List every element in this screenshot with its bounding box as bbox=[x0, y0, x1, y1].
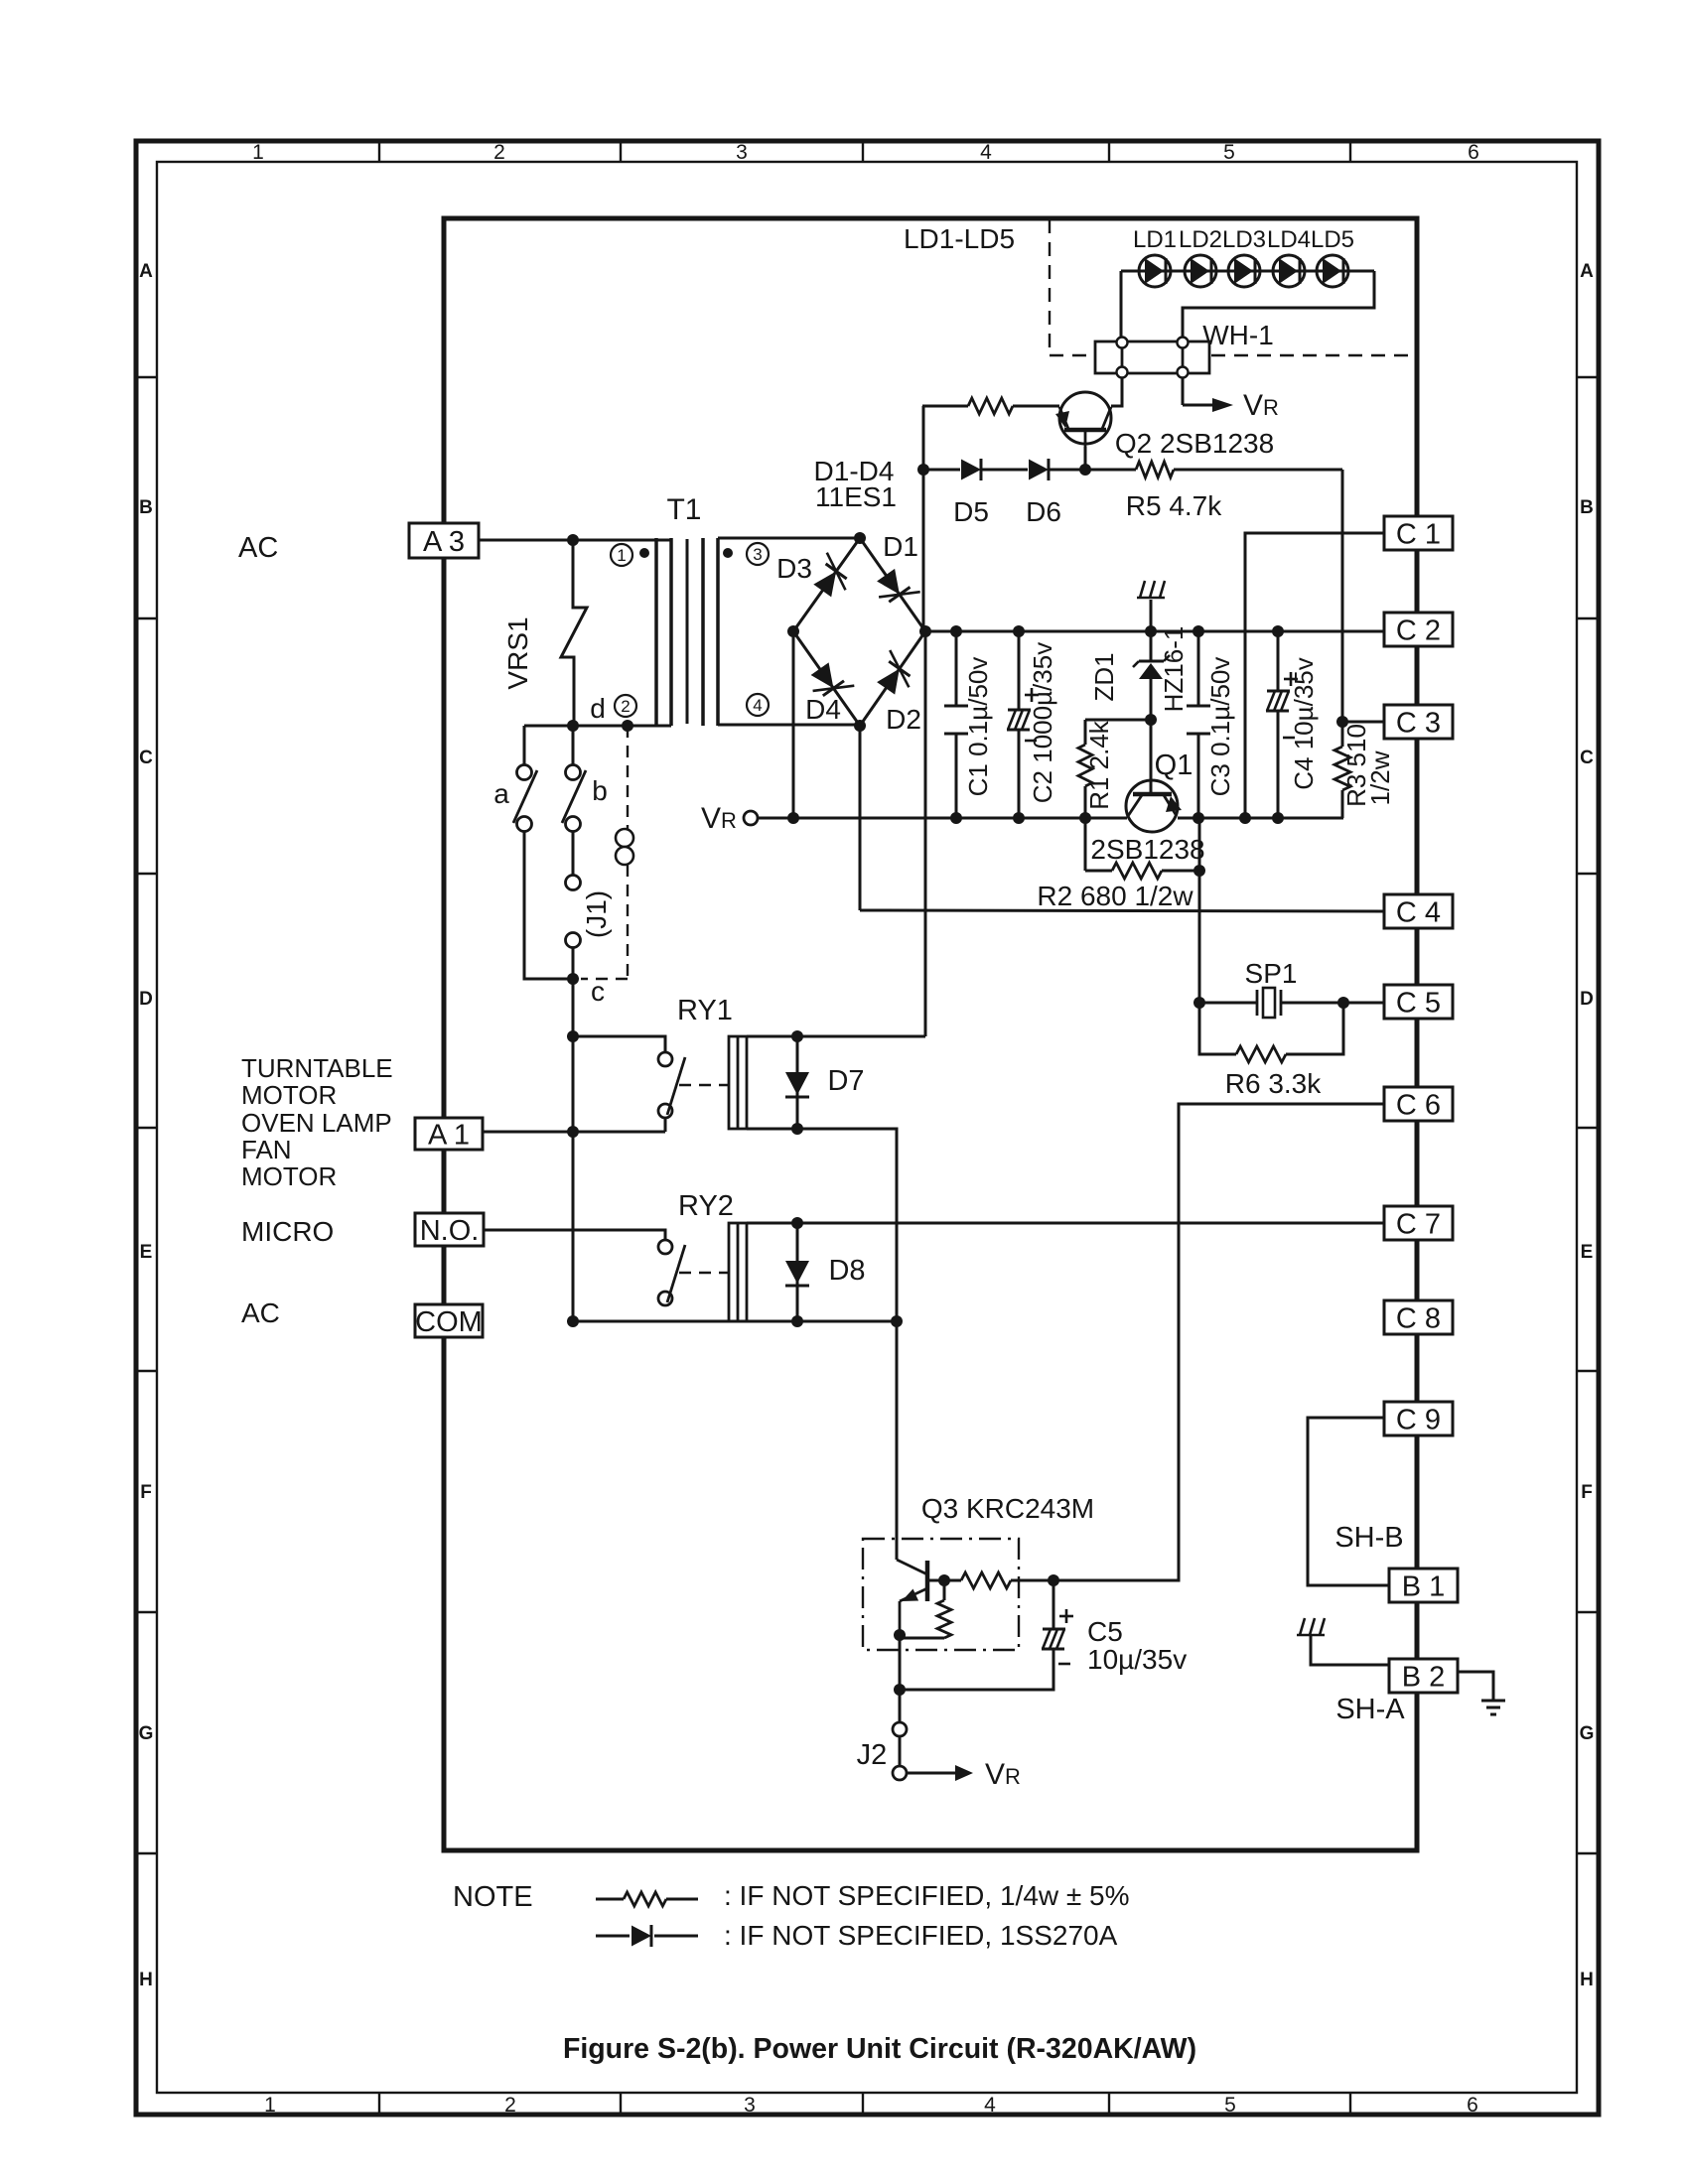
svg-text:AC: AC bbox=[241, 1297, 280, 1328]
connector C6 bbox=[1384, 1087, 1453, 1121]
node R2 right bbox=[1193, 865, 1205, 877]
svg-text:F: F bbox=[140, 1482, 152, 1503]
wire ZD1 to Q1 base bbox=[1150, 720, 1153, 794]
node Q3 emitter bottom bbox=[894, 1684, 906, 1696]
label D6 bbox=[1026, 496, 1061, 527]
svg-text:C 7: C 7 bbox=[1396, 1208, 1441, 1240]
switch a bbox=[513, 765, 537, 832]
label C3 0.1u/50v bbox=[1205, 657, 1235, 797]
node RY1 feed bbox=[567, 1030, 579, 1042]
svg-text:B: B bbox=[139, 497, 153, 518]
node VR-bridge minus bbox=[787, 812, 799, 824]
svg-text:11ES1: 11ES1 bbox=[815, 481, 897, 512]
node COM junction bbox=[567, 1315, 579, 1327]
connector C4 bbox=[1384, 894, 1453, 928]
capacitor C1 0.1u/50v bbox=[944, 631, 968, 818]
node D7 bottom bbox=[791, 1123, 803, 1135]
bridge edge T-R bbox=[860, 538, 925, 631]
svg-text:4: 4 bbox=[980, 141, 992, 164]
bridge edge B-R bbox=[860, 631, 925, 726]
figure title bbox=[563, 2033, 1196, 2065]
svg-text:Figure S-2(b). Power Unit Circ: Figure S-2(b). Power Unit Circuit (R-320… bbox=[563, 2033, 1196, 2065]
resistor R6 3.3k bbox=[1199, 1003, 1343, 1062]
dashed RY1 linkage bbox=[679, 1084, 729, 1086]
wire Q3 out to C6 bbox=[1053, 1104, 1384, 1580]
svg-text:RY2: RY2 bbox=[678, 1190, 734, 1222]
capacitor C2 1000u/35v bbox=[1007, 631, 1031, 818]
svg-text:C2 1000µ/35v: C2 1000µ/35v bbox=[1028, 642, 1057, 803]
label C2 1000u/35v bbox=[1028, 642, 1057, 803]
node C1 bottom bbox=[950, 812, 962, 824]
resistor Q3 base bbox=[961, 1572, 1011, 1588]
svg-text:MOTOR: MOTOR bbox=[241, 1161, 337, 1191]
svg-text:FAN: FAN bbox=[241, 1135, 292, 1164]
legend text 1 bbox=[724, 1880, 1130, 1911]
label Q1 bbox=[1155, 750, 1193, 781]
node bridge left bbox=[787, 625, 799, 637]
svg-text:D2: D2 bbox=[886, 704, 921, 735]
wire relay common down to Q3 bbox=[896, 1321, 899, 1560]
C2 polarity marks bbox=[1025, 688, 1039, 741]
label J2 bbox=[857, 1739, 888, 1771]
svg-text:VRS1: VRS1 bbox=[502, 616, 533, 689]
svg-text:D8: D8 bbox=[828, 1255, 865, 1287]
connector C9 bbox=[1384, 1402, 1453, 1435]
label WH-1 bbox=[1202, 320, 1274, 350]
relay RY2 coil bbox=[729, 1223, 747, 1321]
wire WH-1 to VR arrow bbox=[1183, 377, 1233, 412]
svg-text:C3 0.1µ/50v: C3 0.1µ/50v bbox=[1205, 657, 1235, 797]
svg-text:: IF NOT SPECIFIED, 1/4w ± 5%: : IF NOT SPECIFIED, 1/4w ± 5% bbox=[724, 1880, 1130, 1911]
svg-text:2: 2 bbox=[504, 2094, 516, 2116]
svg-text:a: a bbox=[493, 778, 509, 809]
wire Q3 base resistor leads bbox=[944, 1579, 1053, 1582]
svg-text:(J1): (J1) bbox=[581, 890, 612, 938]
label TURNTABLE MOTOR OVEN LAMP FAN MOTOR bbox=[241, 1053, 393, 1191]
wire R4 to Q2 bbox=[1013, 405, 1059, 408]
wire left common column bbox=[572, 1036, 575, 1321]
varistor VRS1 bbox=[561, 540, 587, 726]
svg-text:D6: D6 bbox=[1026, 496, 1061, 527]
diode D3 bbox=[813, 553, 846, 598]
svg-text:R2 680 1/2w: R2 680 1/2w bbox=[1037, 881, 1193, 911]
node bridge top bbox=[854, 532, 866, 544]
wire VR rail right bbox=[1178, 817, 1343, 820]
svg-text:2: 2 bbox=[493, 141, 505, 164]
svg-text:H: H bbox=[1580, 1970, 1594, 1990]
wire C4 conn line bbox=[860, 910, 1384, 911]
svg-text:C1 0.1µ/50v: C1 0.1µ/50v bbox=[963, 657, 993, 797]
node R1 bottom bbox=[1079, 812, 1091, 824]
svg-text:6: 6 bbox=[1468, 141, 1479, 164]
connector C2 bbox=[1384, 613, 1453, 646]
svg-text:10µ/35v: 10µ/35v bbox=[1087, 1644, 1187, 1675]
svg-text:D: D bbox=[139, 989, 153, 1010]
label D5 bbox=[953, 496, 989, 527]
svg-text:RY1: RY1 bbox=[677, 995, 733, 1026]
dashed J1 linkage bbox=[581, 726, 628, 979]
label a bbox=[493, 778, 509, 809]
label d bbox=[590, 693, 606, 724]
label D8 bbox=[828, 1255, 865, 1287]
svg-text:LD4: LD4 bbox=[1267, 226, 1311, 253]
svg-text:A: A bbox=[139, 261, 153, 282]
LED LD5 bbox=[1317, 255, 1348, 287]
label C5 bbox=[1087, 1616, 1187, 1675]
svg-text:: IF NOT SPECIFIED, 1SS270A: : IF NOT SPECIFIED, 1SS270A bbox=[724, 1920, 1118, 1951]
transistor Q3 KRC243M bbox=[897, 1560, 927, 1635]
label R3 510 bbox=[1341, 724, 1371, 807]
label 11ES1 bbox=[815, 481, 897, 512]
node D7 top bbox=[791, 1030, 803, 1042]
svg-text:b: b bbox=[592, 775, 608, 806]
capacitor C5 10u/35v bbox=[1042, 1580, 1065, 1690]
node D8 bottom bbox=[791, 1315, 803, 1327]
svg-text:LD1: LD1 bbox=[1133, 226, 1177, 253]
connector C1 bbox=[1384, 516, 1453, 550]
svg-text:3: 3 bbox=[744, 2094, 756, 2116]
svg-text:LD1-LD5: LD1-LD5 bbox=[904, 223, 1015, 254]
svg-text:3: 3 bbox=[736, 141, 748, 164]
dashed display-board boundary bbox=[1050, 219, 1414, 355]
pin 4 marker bbox=[747, 694, 769, 716]
LED LD4 bbox=[1273, 255, 1305, 287]
label c bbox=[591, 976, 605, 1007]
wire switch a bottom bbox=[524, 831, 573, 979]
node R5-C3 junction bbox=[1336, 716, 1348, 728]
label RY1 bbox=[677, 995, 733, 1026]
label AC (top) bbox=[238, 532, 278, 564]
label NOTE bbox=[453, 1881, 533, 1913]
wire switch b to J1 bbox=[572, 831, 575, 876]
capacitor C3 0.1u/50v bbox=[1187, 631, 1210, 818]
arrow J2 VR bbox=[907, 1765, 973, 1781]
label 1/2w (R3) bbox=[1365, 751, 1395, 805]
diode D2 bbox=[877, 650, 910, 695]
connector C3 bbox=[1384, 705, 1453, 739]
svg-text:A 1: A 1 bbox=[428, 1119, 470, 1151]
wire Q3 emitter down bbox=[899, 1635, 902, 1690]
label Q2 2SB1238 bbox=[1115, 428, 1274, 459]
wire VR rail left bbox=[758, 817, 1127, 820]
node A1 junction bbox=[567, 1126, 579, 1138]
connector B2 bbox=[1389, 1659, 1458, 1693]
wire bridge minus down bbox=[792, 631, 795, 818]
wire bridge plus down to relays bbox=[924, 631, 927, 1036]
dashed RY2 linkage bbox=[679, 1272, 729, 1274]
wire d to primary bottom bbox=[524, 725, 671, 728]
svg-text:OVEN LAMP: OVEN LAMP bbox=[241, 1108, 392, 1138]
ground (SH-A) bbox=[1297, 1618, 1389, 1665]
node C3 bottom bbox=[1193, 812, 1204, 824]
label SH-B bbox=[1334, 1522, 1403, 1554]
node SP1 right bbox=[1337, 997, 1349, 1009]
wire to R5 bbox=[1085, 469, 1136, 472]
label R5 4.7k bbox=[1126, 490, 1222, 521]
node ZD1-R1 bbox=[1145, 714, 1157, 726]
node d bbox=[567, 720, 579, 732]
zener diode ZD1 HZ16-1 bbox=[1133, 631, 1170, 720]
svg-text:LD2: LD2 bbox=[1179, 226, 1222, 253]
LED LD1 label bbox=[1133, 226, 1177, 253]
pin 2 marker bbox=[615, 695, 636, 717]
diode D5 bbox=[961, 459, 981, 480]
node A3 branch bbox=[567, 534, 579, 546]
label R6 3.3k bbox=[1225, 1068, 1322, 1099]
resistor R3 510 1/2w bbox=[1334, 722, 1350, 818]
label HZ16-1 bbox=[1159, 626, 1189, 713]
node rail ZD1 bbox=[1145, 625, 1157, 637]
ground (rail) bbox=[1137, 581, 1165, 631]
svg-text:Q1: Q1 bbox=[1155, 750, 1193, 781]
connector C5 bbox=[1384, 985, 1453, 1019]
node rail C1cap bbox=[950, 625, 962, 637]
transformer T1 windings and core bbox=[656, 538, 718, 726]
bridge edge L-B bbox=[793, 631, 860, 726]
transformer phase dots bbox=[639, 548, 733, 558]
node Q3 emitter bbox=[894, 1629, 906, 1641]
node bridge bottom bbox=[854, 720, 866, 732]
wire Q2 base down bbox=[1084, 447, 1087, 470]
connector A3 bbox=[409, 523, 479, 558]
svg-text:c: c bbox=[591, 976, 605, 1007]
connector C8 bbox=[1384, 1300, 1453, 1334]
connector NO bbox=[415, 1213, 484, 1247]
wire LED right loop bbox=[1183, 271, 1374, 339]
node J1 dashed tap bbox=[622, 720, 633, 732]
label T1 bbox=[666, 493, 701, 526]
wire secondary bottom bbox=[718, 724, 860, 727]
svg-text:C: C bbox=[139, 748, 153, 768]
wire c to RY1 bbox=[572, 979, 575, 1036]
svg-text:LD3: LD3 bbox=[1222, 226, 1266, 253]
wire emitter loop to C5 bbox=[900, 1652, 1053, 1690]
svg-text:E: E bbox=[1581, 1242, 1594, 1263]
svg-text:V: V bbox=[985, 1758, 1005, 1791]
label VR (J2) bbox=[985, 1758, 1021, 1791]
svg-text:C 8: C 8 bbox=[1396, 1302, 1441, 1334]
svg-text:T1: T1 bbox=[666, 493, 701, 526]
wire SP1 left bbox=[1199, 1002, 1257, 1005]
wire R4 branch bbox=[922, 405, 968, 408]
svg-text:1: 1 bbox=[264, 2094, 276, 2116]
ground (B2 earth) bbox=[1481, 1701, 1505, 1714]
diode D8 bbox=[785, 1223, 809, 1321]
svg-text:C 5: C 5 bbox=[1396, 987, 1441, 1019]
ruler coordinate labels 1-6 and A-H bbox=[139, 141, 1595, 2116]
node bridge right bbox=[919, 625, 931, 637]
wire D5 segment bbox=[923, 469, 960, 472]
svg-text:R: R bbox=[1005, 1764, 1021, 1789]
node C1-conn bottom bbox=[1239, 812, 1251, 824]
label SH-A bbox=[1335, 1694, 1405, 1725]
piezo sounder SP1 bbox=[1257, 988, 1281, 1018]
label D1-D4 bbox=[814, 456, 895, 486]
diode D7 bbox=[785, 1036, 809, 1129]
label D3 bbox=[776, 553, 812, 584]
svg-text:A: A bbox=[1580, 261, 1594, 282]
svg-text:D5: D5 bbox=[953, 496, 989, 527]
svg-text:1: 1 bbox=[617, 546, 626, 565]
wire secondary top bbox=[718, 537, 860, 540]
svg-text:R1 2.4k: R1 2.4k bbox=[1084, 720, 1114, 810]
svg-text:A 3: A 3 bbox=[423, 526, 465, 558]
svg-text:2SB1238: 2SB1238 bbox=[1090, 834, 1204, 865]
switch b bbox=[562, 765, 586, 832]
LED LD1 bbox=[1139, 255, 1171, 287]
svg-text:5: 5 bbox=[1224, 2094, 1236, 2116]
inductor (J1) coil bbox=[616, 829, 633, 865]
svg-text:TURNTABLE: TURNTABLE bbox=[241, 1053, 393, 1083]
label D4 bbox=[805, 694, 841, 725]
svg-text:4: 4 bbox=[753, 696, 762, 715]
svg-text:C: C bbox=[1580, 748, 1594, 768]
wire Q3 base lead bbox=[927, 1579, 944, 1582]
wire a branch top bbox=[523, 726, 526, 765]
svg-text:C 1: C 1 bbox=[1396, 518, 1441, 550]
node rail C4cap bbox=[1272, 625, 1284, 637]
connector WH-1 bbox=[1095, 338, 1209, 378]
bridge edge L-T bbox=[793, 538, 860, 631]
resistor R4 27 bbox=[968, 398, 1013, 414]
C5 polarity marks bbox=[1058, 1609, 1073, 1664]
wire C9 to B1 (SH-B loop) bbox=[1308, 1418, 1389, 1585]
svg-text:C 4: C 4 bbox=[1396, 896, 1441, 928]
connector C7 bbox=[1384, 1206, 1453, 1240]
wire LED row bbox=[1121, 270, 1374, 273]
svg-text:B 1: B 1 bbox=[1402, 1570, 1446, 1602]
legend resistor symbol bbox=[596, 1892, 698, 1906]
label RY2 bbox=[678, 1190, 734, 1222]
svg-text:C 2: C 2 bbox=[1396, 614, 1441, 646]
LED LD3 bbox=[1228, 255, 1260, 287]
node Q2 base bbox=[1079, 464, 1091, 476]
svg-text:C 9: C 9 bbox=[1396, 1404, 1441, 1435]
diode D1 bbox=[877, 569, 920, 602]
svg-text:2: 2 bbox=[621, 697, 630, 716]
drawing border frame with coordinate ruler bbox=[136, 141, 1599, 2115]
wire RY1 switch top bbox=[573, 1036, 665, 1052]
svg-text:V: V bbox=[701, 802, 721, 835]
svg-text:J2: J2 bbox=[857, 1739, 888, 1771]
svg-text:B 2: B 2 bbox=[1402, 1661, 1446, 1693]
svg-text:LD5: LD5 bbox=[1311, 226, 1354, 253]
wire D5-D6 bbox=[982, 469, 1028, 472]
resistor R1 2.4k bbox=[1078, 720, 1092, 818]
relay RY1 switch bbox=[658, 1052, 685, 1118]
svg-text:SH-A: SH-A bbox=[1335, 1694, 1405, 1725]
label R2 680 1/2w bbox=[1037, 881, 1193, 911]
svg-text:R: R bbox=[1263, 395, 1279, 420]
svg-text:4: 4 bbox=[984, 2094, 996, 2116]
svg-text:AC: AC bbox=[238, 532, 278, 564]
svg-text:COM: COM bbox=[415, 1306, 483, 1338]
label LD1-LD5 bbox=[904, 223, 1015, 254]
label Q3 KRC243M bbox=[921, 1493, 1094, 1524]
wire RY1 coil top bbox=[747, 1035, 925, 1038]
wire Q2 collector to WH-1 bbox=[1111, 377, 1122, 406]
wire J1 bottom bbox=[572, 947, 575, 979]
svg-text:R: R bbox=[721, 808, 737, 833]
capacitor C4 10u/35v bbox=[1266, 631, 1290, 818]
label D7 bbox=[827, 1065, 864, 1097]
svg-text:MOTOR: MOTOR bbox=[241, 1080, 337, 1110]
svg-text:Q3 KRC243M: Q3 KRC243M bbox=[921, 1493, 1094, 1524]
label b bbox=[592, 775, 608, 806]
diode D4 bbox=[811, 662, 855, 695]
label VRS1 bbox=[502, 616, 533, 689]
pin 3 marker bbox=[747, 543, 769, 565]
LED LD5 label bbox=[1311, 226, 1354, 253]
svg-text:SP1: SP1 bbox=[1245, 958, 1298, 989]
LED LD3 label bbox=[1222, 226, 1266, 253]
node C5 top bbox=[1048, 1574, 1059, 1586]
resistor R5 4.7k bbox=[1136, 462, 1174, 478]
node c bbox=[567, 973, 579, 985]
node C4 bottom bbox=[1272, 812, 1284, 824]
connector B1 bbox=[1389, 1569, 1458, 1602]
label (J1) bbox=[581, 890, 612, 938]
node RY2-Q3 junction bbox=[891, 1315, 903, 1327]
wire LED left to WH-1 bbox=[1120, 271, 1123, 339]
svg-text:C 6: C 6 bbox=[1396, 1089, 1441, 1121]
wire RY2 coil top to C7 bbox=[747, 1222, 1384, 1225]
svg-text:D4: D4 bbox=[805, 694, 841, 725]
svg-text:SH-B: SH-B bbox=[1334, 1522, 1403, 1554]
wire RY2 bottom bbox=[573, 1320, 897, 1323]
LED LD2 bbox=[1185, 255, 1216, 287]
svg-text:C4 10µ/35v: C4 10µ/35v bbox=[1289, 657, 1319, 790]
wire b branch top bbox=[572, 726, 575, 765]
relay RY1 coil bbox=[729, 1036, 747, 1129]
transistor Q1 2SB1238 bbox=[1126, 780, 1182, 832]
svg-text:G: G bbox=[139, 1723, 154, 1744]
label ZD1 bbox=[1089, 652, 1119, 701]
svg-text:D: D bbox=[1580, 989, 1594, 1010]
svg-text:6: 6 bbox=[1467, 2094, 1478, 2116]
pin 1 marker bbox=[611, 544, 632, 566]
wire C3bottom-R2-SP1 column bbox=[1198, 818, 1201, 1003]
node Q3 base-resistor split bbox=[938, 1574, 950, 1586]
svg-text:d: d bbox=[590, 693, 606, 724]
label D2 bbox=[886, 704, 921, 735]
svg-text:C5: C5 bbox=[1087, 1616, 1123, 1647]
jumper J1 bbox=[566, 876, 581, 948]
wire A1 to RY1 switch bbox=[483, 1118, 665, 1132]
svg-text:H: H bbox=[139, 1970, 153, 1990]
wire C1 conn to VR rail bbox=[1245, 533, 1384, 818]
label C1 0.1u/50v bbox=[963, 657, 993, 797]
node rail C3cap bbox=[1193, 625, 1204, 637]
label VR (left) bbox=[701, 802, 737, 835]
label MICRO bbox=[241, 1216, 334, 1247]
LED LD4 label bbox=[1267, 226, 1311, 253]
svg-text:1: 1 bbox=[252, 141, 264, 164]
transistor Q2 2SB1238 bbox=[1055, 392, 1111, 447]
svg-text:MICRO: MICRO bbox=[241, 1216, 334, 1247]
wire A3 to transformer bbox=[479, 539, 671, 542]
svg-text:D7: D7 bbox=[827, 1065, 864, 1097]
svg-text:N.O.: N.O. bbox=[420, 1215, 480, 1247]
legend text 2 bbox=[724, 1920, 1118, 1951]
label VR (top) bbox=[1243, 389, 1279, 422]
wire D6 to Q2 base node bbox=[1050, 469, 1085, 472]
svg-text:R5 4.7k: R5 4.7k bbox=[1126, 490, 1222, 521]
LED LD2 label bbox=[1179, 226, 1222, 253]
label SP1 bbox=[1245, 958, 1298, 989]
resistor R2 680 1/2w bbox=[1085, 818, 1199, 879]
wire +V rail bbox=[925, 630, 1384, 633]
